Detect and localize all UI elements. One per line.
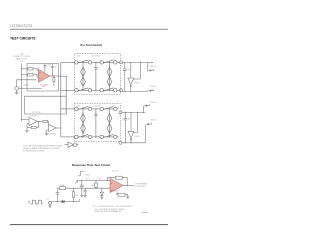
capacitor C3 mid — [95, 109, 97, 114]
svg-text:1µF: 1µF — [128, 119, 131, 121]
svg-text:1/2 LT1720: 1/2 LT1720 — [32, 112, 40, 114]
svg-text:WITH 50Ω INPUT TERMINATION: WITH 50Ω INPUT TERMINATION — [94, 210, 122, 213]
wire: output — [123, 185, 134, 187]
svg-text:1/2 LT1720: 1/2 LT1720 — [92, 106, 100, 108]
footnote text — [92, 206, 133, 213]
wire to jack 1 — [147, 62, 149, 71]
svg-text:LT1010: LT1010 — [134, 136, 139, 138]
input pulse waveform — [78, 171, 83, 175]
svg-text:±V ADJ: ±V ADJ — [24, 84, 30, 87]
bus B vertical — [65, 76, 67, 114]
wire: upper rail — [123, 61, 148, 63]
svg-text:SCOPE V/DIV: SCOPE V/DIV — [135, 186, 146, 188]
lower bottom row — [78, 136, 89, 138]
switch S7 — [75, 135, 78, 138]
svg-text:1µF: 1µF — [54, 66, 57, 68]
resistor R14 latch — [117, 192, 118, 195]
ground rail upper — [123, 90, 148, 92]
svg-text:+: + — [39, 71, 41, 75]
wire: op1 inputs — [21, 118, 29, 120]
svg-text:LT1010: LT1010 — [134, 83, 139, 85]
current source I1 chain — [82, 62, 84, 90]
ground under generator — [49, 205, 51, 206]
resistor R10 400 ohm — [58, 187, 60, 189]
capacitor C5 — [124, 113, 126, 119]
svg-text:TO HIGH SPEED: TO HIGH SPEED — [135, 184, 148, 186]
bus A vertical — [60, 62, 62, 136]
switch S8 — [100, 135, 103, 138]
connector out upper — [120, 61, 123, 64]
note text bottom — [23, 145, 62, 153]
resistor R4 feedback — [31, 127, 36, 129]
DUT box 1 — [27, 64, 59, 92]
wire: gen to diode — [52, 201, 62, 203]
ground on riser — [81, 188, 83, 195]
switch S6 — [100, 107, 103, 110]
switch S4 — [100, 89, 103, 92]
lower top row — [78, 108, 89, 110]
svg-text:1/2 LT1112: 1/2 LT1112 — [28, 115, 36, 117]
resistor R2 input — [28, 74, 33, 76]
pulse generator waveform glyph — [31, 200, 43, 204]
svg-text:25Ω: 25Ω — [91, 185, 95, 187]
capacitor C2 mid — [95, 62, 97, 67]
switch S2 — [100, 61, 103, 64]
buffer A1 (down) — [130, 62, 132, 78]
jack J3 supply arrow — [145, 104, 149, 106]
svg-text:400Ω*: 400Ω* — [60, 185, 65, 187]
wire: row feeds left — [61, 61, 75, 63]
svg-text:TEST CIRCUITS: TEST CIRCUITS — [10, 35, 36, 40]
svg-text:V1*: V1* — [86, 178, 89, 180]
output buffer A3 and connector below lower box — [68, 142, 73, 148]
riser with coupling cap C12 — [57, 194, 59, 202]
resistor R11 25 ohm — [72, 192, 74, 198]
source V1 adjust — [15, 87, 19, 91]
DUT switch box upper (dashed) — [74, 53, 120, 95]
svg-text:25Ω: 25Ω — [75, 195, 79, 197]
current source I3 chain — [82, 109, 84, 137]
svg-text:BY THE SWITCHED SOURCES: BY THE SWITCHED SOURCES — [23, 150, 45, 152]
buffer A2 (down) — [130, 113, 132, 132]
ground rail lower — [122, 142, 146, 144]
wire: servo loop rect — [25, 96, 67, 114]
comparator U1 half LT1720 (red) — [38, 69, 50, 82]
resistor R13 hysteresis feedback — [108, 178, 116, 181]
upper bottom row — [78, 89, 89, 91]
capacitor C11 to ground — [84, 188, 86, 190]
wire: op2 output — [56, 127, 60, 129]
ground under op2 — [45, 133, 48, 135]
wire to jack 3 — [142, 106, 144, 113]
svg-text:DUT: DUT — [42, 86, 45, 88]
footer rule — [10, 224, 168, 226]
note text block top-left — [13, 54, 30, 63]
switch S3 — [75, 89, 78, 92]
ground — [84, 194, 87, 196]
ground — [16, 90, 18, 92]
jack J2 supply arrow — [147, 90, 149, 91]
jack J1 supply arrow — [149, 69, 153, 71]
wire: lower rail — [122, 112, 146, 114]
wire: bottom return — [73, 201, 79, 203]
ground — [100, 196, 103, 198]
wire: noninverting input feed — [21, 74, 28, 76]
svg-text:= 5V: = 5V — [20, 61, 24, 63]
svg-text:DUT: DUT — [77, 55, 80, 57]
jack J4 supply arrow — [145, 124, 147, 143]
comparator U4 1/2 LT1720 (red) — [110, 178, 123, 192]
switch S1 — [75, 61, 78, 64]
wire: op1 out to R5 — [37, 120, 43, 122]
switch S5 — [75, 107, 78, 110]
wire: left input bus vertical — [20, 63, 22, 121]
svg-text:1/2 LT1720: 1/2 LT1720 — [92, 55, 100, 57]
resistor R1 input — [28, 68, 33, 70]
generator output connector — [48, 201, 51, 204]
resistor R12 divider — [95, 181, 97, 184]
current source I2 chain — [109, 62, 111, 90]
capacitor C10 coupling to +in — [81, 187, 83, 189]
svg-text:VSS 5V: VSS 5V — [150, 86, 157, 88]
svg-text:−: − — [19, 90, 20, 92]
wire: +input line — [78, 180, 110, 182]
svg-text:LT1720/LT1721: LT1720/LT1721 — [10, 23, 33, 28]
upper top row — [78, 61, 89, 63]
wire: vertical to -in line — [72, 188, 74, 191]
figure number mark — [142, 212, 148, 214]
wire: comparator output — [50, 75, 59, 77]
svg-text:VOS Test Circuit: VOS Test Circuit — [80, 43, 102, 47]
ground — [126, 196, 129, 198]
ground under op1 — [25, 130, 28, 132]
wire: R1 to comparator — [33, 68, 39, 70]
capacitor C1b bypass — [51, 64, 53, 67]
diode D1 — [101, 188, 103, 192]
svg-text:−100mV: −100mV — [84, 174, 91, 176]
svg-text:0.1µF: 0.1µF — [47, 64, 51, 66]
svg-text:VDD 5V: VDD 5V — [150, 66, 157, 68]
DUT switch box lower (dashed) — [74, 103, 120, 141]
wire: R2 to comparator — [33, 74, 39, 76]
svg-text:0V: 0V — [84, 172, 87, 174]
capacitor C4 — [124, 62, 126, 69]
op-amp U3 1/2 LT1112 — [49, 125, 56, 132]
wire: Vos adjust upper — [17, 79, 36, 81]
wire: DUT1 output to bus B — [59, 75, 67, 77]
svg-text:VSS 5V: VSS 5V — [150, 119, 157, 121]
connector out lower — [119, 111, 122, 114]
header rule — [10, 28, 168, 30]
svg-text:0V: 0V — [47, 199, 49, 201]
capacitor C1 bypass — [44, 64, 46, 66]
svg-text:50Ω: 50Ω — [98, 178, 102, 180]
svg-text:1/2 LT1112: 1/2 LT1112 — [48, 133, 56, 135]
resistor R3 output load — [53, 76, 55, 77]
wire: -input line — [85, 187, 110, 189]
current source I4 chain — [109, 109, 111, 137]
wire: inverting input feed — [21, 68, 28, 70]
resistor R5 — [43, 120, 48, 122]
svg-text:−: − — [39, 77, 41, 81]
svg-text:V+ = 5V: V+ = 5V — [112, 171, 119, 173]
svg-text:1µF: 1µF — [127, 69, 130, 71]
svg-text:1/2 LT1720: 1/2 LT1720 — [40, 84, 48, 86]
diode D2 — [62, 200, 65, 203]
svg-text:Response Time Test Circuit: Response Time Test Circuit — [72, 163, 110, 167]
svg-text:VDD 5V: VDD 5V — [150, 102, 157, 104]
